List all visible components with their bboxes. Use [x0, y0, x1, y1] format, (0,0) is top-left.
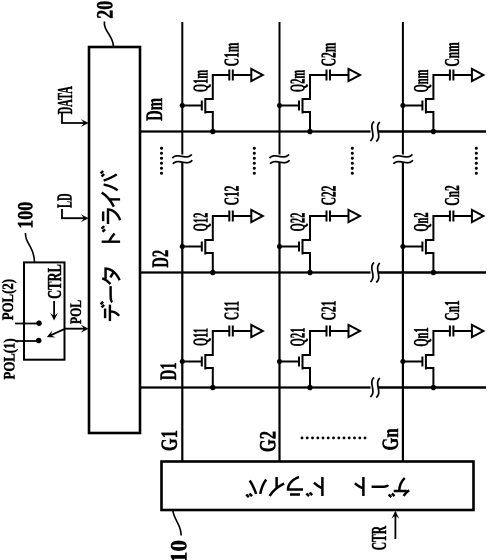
transistor Q2m — [280, 98, 311, 132]
counter electrode of Cnm — [472, 69, 484, 81]
data driver block 20 (データ ドライバ) — [89, 47, 140, 433]
svg-text:C11: C11 — [220, 301, 244, 320]
transistor Q11 — [182, 354, 213, 388]
break mark on data line D2 — [370, 263, 379, 283]
capacitor C11 — [229, 326, 233, 337]
transistor Q21 — [280, 354, 311, 388]
svg-text:CTRL: CTRL — [43, 264, 66, 299]
wire Cnm to counter electrode — [453, 74, 472, 76]
svg-text:Q2m: Q2m — [286, 70, 310, 92]
wire drain of Q11 to C11 — [212, 331, 230, 355]
wire POL(1) input stub — [15, 340, 39, 342]
svg-text:POL(2): POL(2) — [0, 279, 17, 320]
counter electrode of C1m — [251, 69, 262, 81]
wire POL(2) input stub — [15, 323, 39, 325]
ellipsis dots (omitted rows) col 2 — [253, 147, 256, 175]
label データ ドライバ (rotated) — [101, 171, 120, 321]
svg-text:Cnm: Cnm — [441, 42, 465, 66]
svg-text:Q11: Q11 — [188, 328, 212, 346]
transistor Q22 — [280, 239, 311, 273]
CTR input arrow — [392, 511, 400, 539]
svg-text:C12: C12 — [220, 186, 244, 206]
svg-text:Dm: Dm — [143, 98, 168, 121]
svg-text:Q22: Q22 — [286, 213, 310, 232]
capacitor C2m — [327, 70, 331, 81]
svg-text:C1m: C1m — [220, 43, 244, 67]
node source of Q1m on Dm — [210, 129, 216, 135]
node gate of Q12 on G1 — [180, 244, 185, 249]
node gate of Q2m on G2 — [277, 103, 282, 108]
wire drain of Qn2 to Cn2 — [432, 216, 450, 240]
wire C11 to counter electrode — [233, 330, 252, 332]
node source of Q11 on D1 — [210, 385, 216, 391]
counter electrode of C21 — [349, 325, 361, 337]
ellipsis dots (omitted rows) col 1 — [160, 147, 163, 175]
counter electrode of C12 — [251, 210, 262, 222]
wire C12 to counter electrode — [233, 215, 252, 217]
wire drain of Q1m to C1m — [212, 75, 230, 99]
wire drain of Qn1 to Cn1 — [432, 331, 450, 355]
transistor Q1m — [182, 98, 213, 132]
wire C2m to counter electrode — [330, 74, 349, 76]
svg-text:POL: POL — [67, 300, 85, 324]
svg-text:Q21: Q21 — [286, 328, 310, 347]
svg-text:G1: G1 — [157, 430, 182, 451]
capacitor C1m — [229, 70, 233, 81]
svg-text:POL(1): POL(1) — [1, 338, 19, 379]
capacitor C22 — [327, 211, 331, 222]
POL select arrow (double headed) — [45, 325, 88, 341]
leader line for 100 — [25, 233, 34, 262]
node source of Q21 on D1 — [307, 385, 313, 391]
svg-text:D2: D2 — [149, 250, 174, 268]
node source of Qn1 on D1 — [431, 385, 437, 391]
svg-text:LD: LD — [53, 193, 77, 208]
break mark on gate line G2 — [270, 154, 290, 163]
node source of Q22 on D2 — [307, 270, 313, 276]
wire C22 to counter electrode — [330, 215, 349, 217]
svg-text:DATA: DATA — [53, 86, 77, 114]
CTRL down arrow — [50, 301, 58, 321]
transistor Qnm — [403, 98, 434, 132]
capacitor C12 — [229, 211, 233, 222]
svg-text:10: 10 — [166, 540, 191, 560]
label ゲート ドライバ (rotated 180) — [246, 477, 409, 497]
polarity selector block 100 — [24, 262, 65, 359]
node source of Qnm on Dm — [431, 129, 437, 135]
ellipsis dots (omitted columns, gate label row) — [301, 437, 367, 440]
leader line for 20 — [104, 22, 113, 47]
wire data line Dm — [140, 130, 486, 132]
wire data line D1 — [140, 386, 486, 388]
node gate of Qn2 on Gn — [400, 244, 405, 249]
node source of Q2m on Dm — [307, 129, 313, 135]
capacitor Cn1 — [450, 326, 454, 337]
node gate of Qnm on Gn — [400, 103, 405, 108]
wire drain of Qnm to Cnm — [432, 75, 450, 99]
svg-text:Qnm: Qnm — [409, 70, 433, 93]
gate driver block 10 (ゲート ドライバ) — [162, 462, 474, 511]
break mark on gate line Gn — [393, 154, 413, 163]
svg-text:Qn1: Qn1 — [409, 327, 433, 346]
node source of Qn2 on D2 — [431, 270, 437, 276]
capacitor Cnm — [450, 70, 454, 81]
wire drain of Q2m to C2m — [309, 75, 327, 99]
node gate of Q21 on G2 — [277, 359, 282, 364]
counter electrode of Cn1 — [472, 325, 484, 337]
wire gate line G1 — [181, 22, 183, 462]
wire C1m to counter electrode — [233, 74, 252, 76]
counter electrode of C2m — [349, 69, 361, 81]
break mark on gate line G1 — [172, 154, 192, 163]
break mark on data line Dm — [370, 122, 379, 142]
svg-text:D1: D1 — [157, 362, 182, 380]
transistor Qn2 — [403, 239, 434, 273]
capacitor C21 — [327, 326, 331, 337]
ellipsis dots (omitted rows) col 4 — [475, 147, 478, 175]
wire gate line Gn — [402, 22, 404, 462]
svg-text:Cn2: Cn2 — [441, 185, 465, 206]
node gate of Q1m on G1 — [180, 103, 185, 108]
node gate of Qn1 on Gn — [400, 359, 405, 364]
svg-text:Qn2: Qn2 — [409, 212, 433, 231]
node POL(2) — [36, 320, 42, 326]
wire drain of Q21 to C21 — [309, 331, 327, 355]
LD input arrow — [62, 209, 89, 222]
svg-text:C2m: C2m — [317, 43, 341, 67]
svg-text:Q1m: Q1m — [188, 70, 212, 92]
svg-text:CTR: CTR — [368, 525, 392, 550]
break mark on data line D1 — [370, 378, 379, 398]
wire C21 to counter electrode — [330, 330, 349, 332]
wire drain of Q12 to C12 — [212, 216, 230, 240]
svg-text:G2: G2 — [256, 431, 281, 452]
counter electrode of C11 — [251, 325, 262, 337]
wire gate line G2 — [279, 22, 281, 462]
wire data line D2 — [140, 271, 486, 273]
svg-text:100: 100 — [14, 202, 38, 229]
svg-text:20: 20 — [94, 1, 119, 19]
leader line for 10 — [173, 511, 181, 536]
node gate of Q11 on G1 — [180, 359, 185, 364]
svg-text:Cn1: Cn1 — [441, 300, 465, 321]
counter electrode of C22 — [349, 210, 361, 222]
capacitor Cn2 — [450, 211, 454, 222]
node POL(1) — [36, 338, 42, 344]
svg-text:Q12: Q12 — [188, 213, 212, 232]
wire Cn1 to counter electrode — [453, 330, 472, 332]
node gate of Q22 on G2 — [277, 244, 282, 249]
svg-text:C21: C21 — [317, 301, 341, 321]
node source of Q12 on D2 — [210, 270, 216, 276]
wire Cn2 to counter electrode — [453, 215, 472, 217]
ellipsis dots (omitted rows) col 3 — [351, 147, 354, 175]
svg-text:Gn: Gn — [378, 428, 403, 450]
transistor Q12 — [182, 239, 213, 273]
counter electrode of Cn2 — [472, 210, 484, 222]
svg-text:C22: C22 — [317, 186, 341, 206]
DATA input arrow — [62, 113, 89, 127]
wire drain of Q22 to C22 — [309, 216, 327, 240]
transistor Qn1 — [403, 354, 434, 388]
